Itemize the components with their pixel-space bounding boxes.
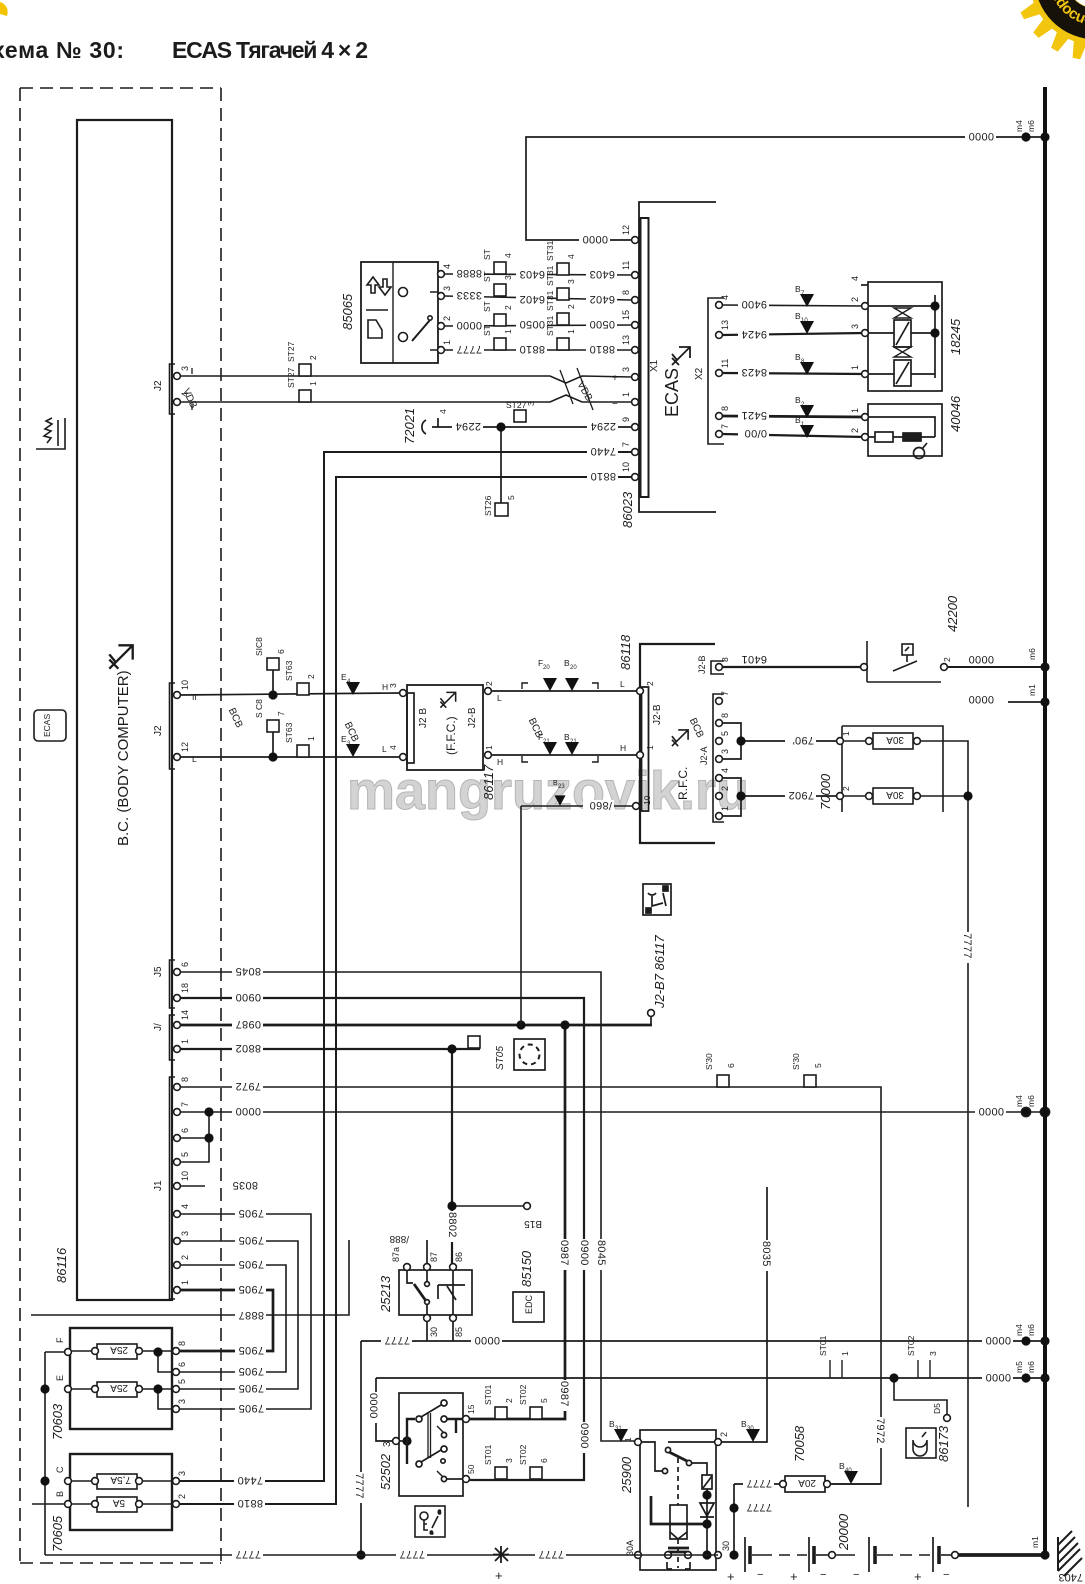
top 0000 wire from X1 pin12 [526, 137, 1045, 240]
svg-text:ST63: ST63 [284, 722, 294, 743]
svg-text:10: 10 [642, 795, 652, 805]
svg-text:0987: 0987 [235, 1018, 261, 1030]
svg-text:14: 14 [180, 1010, 190, 1020]
svg-text:790': 790' [792, 734, 814, 746]
svg-text:20A: 20A [798, 1477, 816, 1488]
wire 0900 [180, 998, 584, 1480]
svg-text:7440: 7440 [237, 1474, 263, 1486]
diode E4 [346, 682, 360, 695]
svg-text:6: 6 [180, 1128, 190, 1133]
svg-text:8810: 8810 [590, 470, 616, 482]
svg-text:m6: m6 [1026, 120, 1036, 132]
svg-text:−: − [820, 1569, 826, 1581]
svg-text:ST27: ST27 [506, 400, 527, 410]
svg-text:J/: J/ [153, 1023, 164, 1031]
svg-text:70000: 70000 [818, 773, 833, 810]
svg-text:52502: 52502 [378, 1453, 393, 1490]
svg-text:B15: B15 [524, 1218, 542, 1229]
7440 / 8810 long wires [176, 452, 632, 1504]
svg-text:30: 30 [429, 1327, 439, 1337]
X1 pins [632, 237, 639, 481]
svg-text:8: 8 [621, 290, 631, 295]
svg-text:85065: 85065 [340, 293, 355, 330]
svg-text:3': 3' [382, 1439, 393, 1447]
svg-text:+: + [495, 1568, 503, 1583]
svg-text:86117: 86117 [481, 764, 496, 800]
svg-text:+: + [612, 373, 618, 384]
svg-text:1: 1 [180, 1280, 190, 1285]
D5 branch to 86173 [894, 1378, 947, 1414]
svg-text:70605: 70605 [50, 1515, 65, 1552]
wire 0987 [180, 1024, 652, 1027]
B31 diode on 8045 wire [614, 1429, 628, 1442]
svg-text:J2: J2 [153, 380, 164, 391]
svg-text:J1: J1 [153, 1180, 164, 1191]
svg-text:6: 6 [276, 649, 286, 654]
svg-text:8: 8 [180, 1077, 190, 1082]
svg-text:8045: 8045 [235, 965, 261, 977]
svg-text:2: 2 [484, 681, 494, 686]
svg-text:85: 85 [454, 1327, 464, 1337]
svg-text:40: 40 [845, 1468, 852, 1474]
wires 7905 x4 [176, 1214, 311, 1409]
svg-text:3: 3 [928, 1351, 938, 1356]
18245 valve block [861, 282, 942, 391]
svg-text:8888: 8888 [456, 267, 482, 279]
svg-text:ST: ST [482, 249, 492, 260]
svg-text:20000: 20000 [836, 1513, 851, 1551]
svg-text:+: + [790, 1569, 798, 1584]
svg-text:хема № 30:: хема № 30: [0, 37, 124, 63]
wires 85065 to X1 [444, 274, 632, 350]
svg-text:8045: 8045 [595, 1240, 607, 1266]
diode B7 [800, 294, 814, 307]
svg-text:ECAS Тягачей 4 × 2: ECAS Тягачей 4 × 2 [172, 37, 368, 63]
svg-text:20: 20 [543, 665, 550, 671]
svg-text:0987: 0987 [558, 1381, 570, 1407]
wire 8035 stub [180, 1185, 205, 1187]
svg-text:H: H [620, 743, 626, 753]
junction 3p [402, 1436, 411, 1445]
svg-text:m5: m5 [1014, 1361, 1024, 1373]
svg-text:7: 7 [276, 711, 286, 716]
svg-text:8810: 8810 [589, 343, 615, 355]
svg-text:3: 3 [850, 324, 860, 329]
svg-text:2: 2 [850, 297, 860, 302]
svg-text:/860: /860 [589, 799, 612, 811]
svg-text:ST02: ST02 [518, 1384, 528, 1405]
svg-text:SIC8: SIC8 [254, 637, 264, 656]
svg-text:6402: 6402 [589, 293, 615, 305]
svg-text:6403: 6403 [589, 268, 615, 280]
svg-text:ST01: ST01 [483, 1384, 493, 1405]
svg-text:0050: 0050 [519, 318, 545, 330]
diode B1 [800, 425, 814, 438]
svg-text:ST63: ST63 [284, 660, 294, 681]
svg-text:S'30: S'30 [704, 1053, 714, 1070]
7860 wire [521, 806, 633, 1025]
svg-text:8810: 8810 [519, 343, 545, 355]
svg-text:0000: 0000 [985, 1371, 1011, 1383]
70603 internals [45, 1344, 176, 1555]
wire number labels [229, 130, 1013, 1561]
svg-text:31: 31 [615, 1426, 622, 1432]
svg-text:86: 86 [454, 1252, 464, 1262]
svg-text:H: H [497, 757, 503, 767]
svg-text:+: + [727, 1569, 735, 1584]
svg-text:72021: 72021 [402, 408, 417, 444]
diode B21 [565, 742, 579, 755]
svg-text:7905: 7905 [238, 1283, 264, 1295]
svg-text:8: 8 [720, 406, 730, 411]
svg-text:3: 3 [177, 1399, 187, 1404]
svg-text:2: 2 [841, 786, 851, 791]
svg-text:1: 1 [720, 806, 730, 811]
svg-text:87: 87 [429, 1252, 439, 1262]
svg-text:3: 3 [566, 279, 576, 284]
svg-text:3: 3 [180, 1231, 190, 1236]
svg-text:8: 8 [720, 657, 730, 662]
svg-text:3: 3 [503, 275, 513, 280]
svg-text:87a: 87a [391, 1247, 401, 1262]
svg-text:4: 4 [566, 254, 576, 259]
svg-text:70603: 70603 [50, 1403, 65, 1440]
ST05 indicator box [514, 1039, 545, 1070]
svg-text:2: 2 [719, 1432, 729, 1437]
svg-text:7972: 7972 [874, 1418, 886, 1444]
svg-text:m6: m6 [1026, 1324, 1036, 1336]
svg-text:30: 30 [747, 1426, 754, 1432]
svg-text:15: 15 [621, 310, 631, 320]
svg-text:40046: 40046 [948, 395, 963, 432]
svg-text:2: 2 [504, 1398, 514, 1403]
svg-text:20: 20 [570, 665, 577, 671]
svg-text:7777: 7777 [384, 1334, 410, 1346]
diode F20 [543, 678, 557, 691]
svg-text:13: 13 [621, 335, 631, 345]
svg-text:11: 11 [720, 359, 730, 368]
svg-text:7777: 7777 [746, 1501, 772, 1513]
svg-text:8802: 8802 [235, 1042, 261, 1054]
svg-text:86118: 86118 [618, 634, 633, 670]
svg-text:2: 2 [942, 657, 952, 662]
svg-text:m6: m6 [1026, 1095, 1036, 1107]
svg-text:21: 21 [570, 739, 577, 745]
70605 internals [32, 1474, 176, 1512]
J2-B top bracket + 6401 [711, 661, 724, 674]
svg-text:2: 2 [177, 1494, 187, 1499]
svg-text:1: 1 [180, 1039, 190, 1044]
svg-text:1: 1 [306, 736, 316, 741]
ST / ST31 connector squares [494, 262, 569, 350]
svg-text:7: 7 [621, 442, 631, 447]
legend: ECAS box [34, 710, 66, 741]
svg-text:−: − [612, 399, 618, 410]
svg-text:0900: 0900 [578, 1423, 590, 1449]
ground symbol [1058, 1531, 1082, 1576]
node m4/m6 top [1021, 132, 1030, 141]
svg-text:R.F.C.: R.F.C. [676, 767, 690, 800]
svg-text:86116: 86116 [54, 1247, 69, 1283]
42200 switch [861, 641, 948, 682]
svg-text:J2-B: J2-B [467, 707, 478, 728]
diode E3 [346, 744, 360, 757]
svg-text:2294: 2294 [590, 420, 616, 432]
7777 wire to 20A fuse 70058 [734, 1476, 881, 1555]
svg-text:2: 2 [503, 305, 513, 310]
svg-text:6401: 6401 [741, 653, 767, 665]
svg-text:25A: 25A [110, 1382, 128, 1393]
svg-text:4: 4 [720, 768, 730, 773]
svg-text:13: 13 [720, 320, 730, 330]
svg-text:J2-B: J2-B [652, 704, 663, 725]
svg-text:10: 10 [180, 1171, 190, 1181]
svg-text:1: 1 [841, 731, 851, 736]
svg-text:10: 10 [180, 680, 190, 690]
svg-text:4: 4 [442, 264, 452, 269]
svg-text:8423: 8423 [741, 366, 767, 378]
svg-text:3333: 3333 [456, 289, 482, 301]
svg-text:25213: 25213 [378, 1275, 393, 1313]
svg-text:4: 4 [388, 745, 398, 750]
svg-text:J2-B7 86117: J2-B7 86117 [652, 934, 667, 1009]
svg-text:+: + [914, 1569, 922, 1584]
gear logo top right [0, 0, 1085, 61]
svg-text:3: 3 [526, 401, 536, 406]
svg-text:m6: m6 [1026, 1361, 1036, 1373]
pins 6,5 link [180, 1112, 209, 1162]
svg-text:12: 12 [621, 225, 631, 235]
svg-text:7777: 7777 [961, 933, 973, 959]
svg-text:6: 6 [180, 962, 190, 967]
svg-text:ST01: ST01 [818, 1335, 828, 1356]
svg-text:2: 2 [306, 674, 316, 679]
svg-text:EDC: EDC [524, 1294, 534, 1314]
FFC box [407, 685, 483, 770]
key symbol box [415, 1506, 445, 1537]
EDC box 85150 [513, 1292, 544, 1322]
sq connector near 8802 corner [468, 1036, 480, 1048]
svg-text:1: 1 [621, 392, 631, 397]
svg-text:m4: m4 [1014, 120, 1024, 132]
svg-text:D5: D5 [932, 1403, 942, 1414]
svg-text:0000: 0000 [367, 1393, 379, 1419]
diode B20 [565, 678, 579, 691]
svg-text:5: 5 [177, 1379, 187, 1384]
svg-text:30A: 30A [886, 734, 904, 745]
svg-text:7,5A: 7,5A [110, 1474, 131, 1485]
diode B40 [844, 1471, 858, 1484]
svg-text:7: 7 [180, 1102, 190, 1107]
svg-text:2294: 2294 [455, 420, 481, 432]
svg-text:7905: 7905 [238, 1207, 264, 1219]
ST30 connectors on 7972 line [717, 1075, 729, 1087]
svg-text:5421: 5421 [741, 409, 767, 421]
svg-text:X2: X2 [694, 367, 705, 380]
svg-text:42200: 42200 [945, 595, 960, 632]
svg-text:ECAS: ECAS [42, 714, 52, 737]
svg-text:1: 1 [850, 408, 860, 413]
svg-text:2: 2 [308, 355, 318, 360]
svg-text:J5: J5 [153, 966, 164, 977]
connector brackets on B.C. right edge [170, 364, 176, 1299]
svg-text:7905: 7905 [238, 1365, 264, 1377]
svg-text:12: 12 [180, 742, 190, 752]
svg-text:L: L [382, 744, 387, 754]
svg-text:86173: 86173 [936, 1425, 951, 1462]
svg-text:F: F [55, 1337, 65, 1343]
svg-text:0000: 0000 [978, 1105, 1004, 1117]
svg-text:3: 3 [442, 286, 452, 291]
svg-text:9400: 9400 [741, 298, 767, 310]
svg-text:C: C [55, 1466, 65, 1473]
svg-text:4: 4 [180, 1204, 190, 1209]
svg-text:6402: 6402 [519, 293, 545, 305]
svg-text:70058: 70058 [792, 1425, 807, 1462]
svg-text:5: 5 [506, 495, 516, 500]
svg-text:7905: 7905 [238, 1382, 264, 1394]
svg-text:4: 4 [503, 253, 513, 258]
pin circles B.C. [174, 373, 181, 380]
svg-text:2: 2 [645, 681, 655, 686]
svg-text:J2-B: J2-B [697, 655, 707, 674]
svg-text:8: 8 [720, 713, 730, 718]
svg-text:6: 6 [726, 1063, 736, 1068]
svg-text:/888: /888 [389, 1233, 409, 1244]
svg-text:7777: 7777 [353, 1473, 365, 1499]
svg-text:10: 10 [801, 318, 808, 324]
svg-text:II: II [192, 692, 197, 702]
svg-text:30A: 30A [886, 789, 904, 800]
svg-text:1: 1 [442, 340, 452, 345]
svg-text:18: 18 [180, 983, 190, 993]
VDB twisted pair [180, 368, 632, 410]
svg-text:11: 11 [621, 261, 631, 270]
diode B10 [800, 321, 814, 334]
svg-text:m1: m1 [1027, 684, 1037, 696]
node m6 [1040, 662, 1049, 671]
svg-text:3: 3 [177, 1471, 187, 1476]
svg-text:3: 3 [388, 683, 398, 688]
diode B2 [800, 405, 814, 418]
svg-text:1: 1 [623, 1437, 633, 1442]
svg-text:a: a [430, 1530, 433, 1536]
svg-text:m4: m4 [1014, 1324, 1024, 1336]
svg-text:6: 6 [177, 1362, 187, 1367]
B.C. body computer rectangle 86116 [77, 120, 172, 1300]
svg-text:J2: J2 [153, 725, 164, 736]
svg-text:1: 1 [308, 381, 318, 386]
svg-text:10: 10 [621, 462, 631, 472]
svg-text:1: 1 [566, 329, 576, 334]
svg-text:0000: 0000 [474, 1334, 500, 1346]
fuse box 70000 [837, 726, 968, 1507]
svg-text:X1: X1 [649, 359, 660, 372]
40046 heater [862, 404, 942, 459]
svg-text:(F.F.C.): (F.F.C.) [444, 716, 458, 755]
svg-text:0000: 0000 [985, 1334, 1011, 1346]
svg-text:B: B [55, 1491, 65, 1497]
svg-text:50: 50 [466, 1464, 476, 1474]
svg-text:3: 3 [621, 367, 631, 372]
svg-text:1: 1 [503, 329, 513, 334]
svg-text:1: 1 [850, 365, 860, 370]
crossing symbol + pluses on 7777 bus [493, 1546, 509, 1563]
svg-text:−: − [853, 1569, 859, 1581]
svg-text:5: 5 [720, 731, 730, 736]
J2-A connector [713, 694, 724, 822]
wires from J2 pins 10/12 [180, 670, 399, 757]
svg-text:ST05: ST05 [495, 1046, 506, 1070]
wire 8802 [180, 1049, 480, 1267]
svg-text:7777: 7777 [456, 343, 482, 355]
svg-text:ST02: ST02 [906, 1335, 916, 1356]
svg-text:5A: 5A [112, 1497, 125, 1508]
svg-text:0500: 0500 [589, 318, 615, 330]
svg-text:ST01: ST01 [483, 1444, 493, 1465]
svg-text:3: 3 [720, 749, 730, 754]
svg-text:m6: m6 [1027, 648, 1037, 660]
svg-text:0987: 0987 [558, 1240, 570, 1266]
B30 diode + 8035 wire [721, 1187, 767, 1442]
svg-text:0000: 0000 [456, 319, 482, 331]
ST01/ST02 squares on 52502 wires [495, 1407, 542, 1479]
diode F21 [543, 742, 557, 755]
svg-text:0900: 0900 [235, 991, 261, 1003]
svg-text:4: 4 [720, 295, 730, 300]
svg-text:6403: 6403 [519, 268, 545, 280]
svg-text:8810: 8810 [237, 1497, 263, 1509]
svg-text:7: 7 [720, 691, 730, 696]
wire 7972 [180, 1087, 881, 1484]
svg-text:ST26: ST26 [483, 495, 493, 516]
svg-text:30: 30 [721, 1541, 731, 1551]
svg-text:ST: ST [482, 301, 492, 312]
svg-text:2: 2 [180, 1255, 190, 1260]
svg-text:5: 5 [180, 1152, 190, 1157]
svg-text:2: 2 [566, 304, 576, 309]
svg-text:L: L [620, 679, 625, 689]
svg-text:6: 6 [539, 1458, 549, 1463]
svg-text:3: 3 [504, 1458, 514, 1463]
svg-text:L: L [192, 754, 197, 764]
corner yellow mark [0, 2, 8, 16]
72021 / 2294 wire [422, 418, 632, 503]
svg-text:15: 15 [466, 1404, 476, 1414]
svg-text:6: 6 [438, 1510, 441, 1516]
B.C. dashed enclosure [20, 88, 221, 1563]
svg-text:7440: 7440 [590, 445, 616, 457]
svg-text:3: 3 [180, 366, 190, 371]
svg-text:8035: 8035 [760, 1241, 772, 1267]
svg-text:25900: 25900 [619, 1456, 634, 1494]
svg-text:m1: m1 [1030, 1536, 1040, 1548]
svg-text:2: 2 [442, 316, 452, 321]
pin numbers B.C. [180, 366, 190, 1285]
svg-text:8887: 8887 [238, 1309, 264, 1321]
legend: heater symbol [36, 418, 65, 449]
svg-text:21: 21 [543, 739, 550, 745]
svg-text:7403: 7403 [1059, 1571, 1083, 1583]
svg-text:7905: 7905 [238, 1234, 264, 1246]
svg-text:1: 1 [840, 1351, 850, 1356]
svg-text:2: 2 [720, 786, 730, 791]
svg-text:−: − [943, 1569, 949, 1581]
svg-text:30A: 30A [625, 1540, 635, 1556]
svg-text:7777: 7777 [746, 1477, 772, 1489]
svg-text:8: 8 [177, 1341, 187, 1346]
svg-text:7905: 7905 [238, 1344, 264, 1356]
